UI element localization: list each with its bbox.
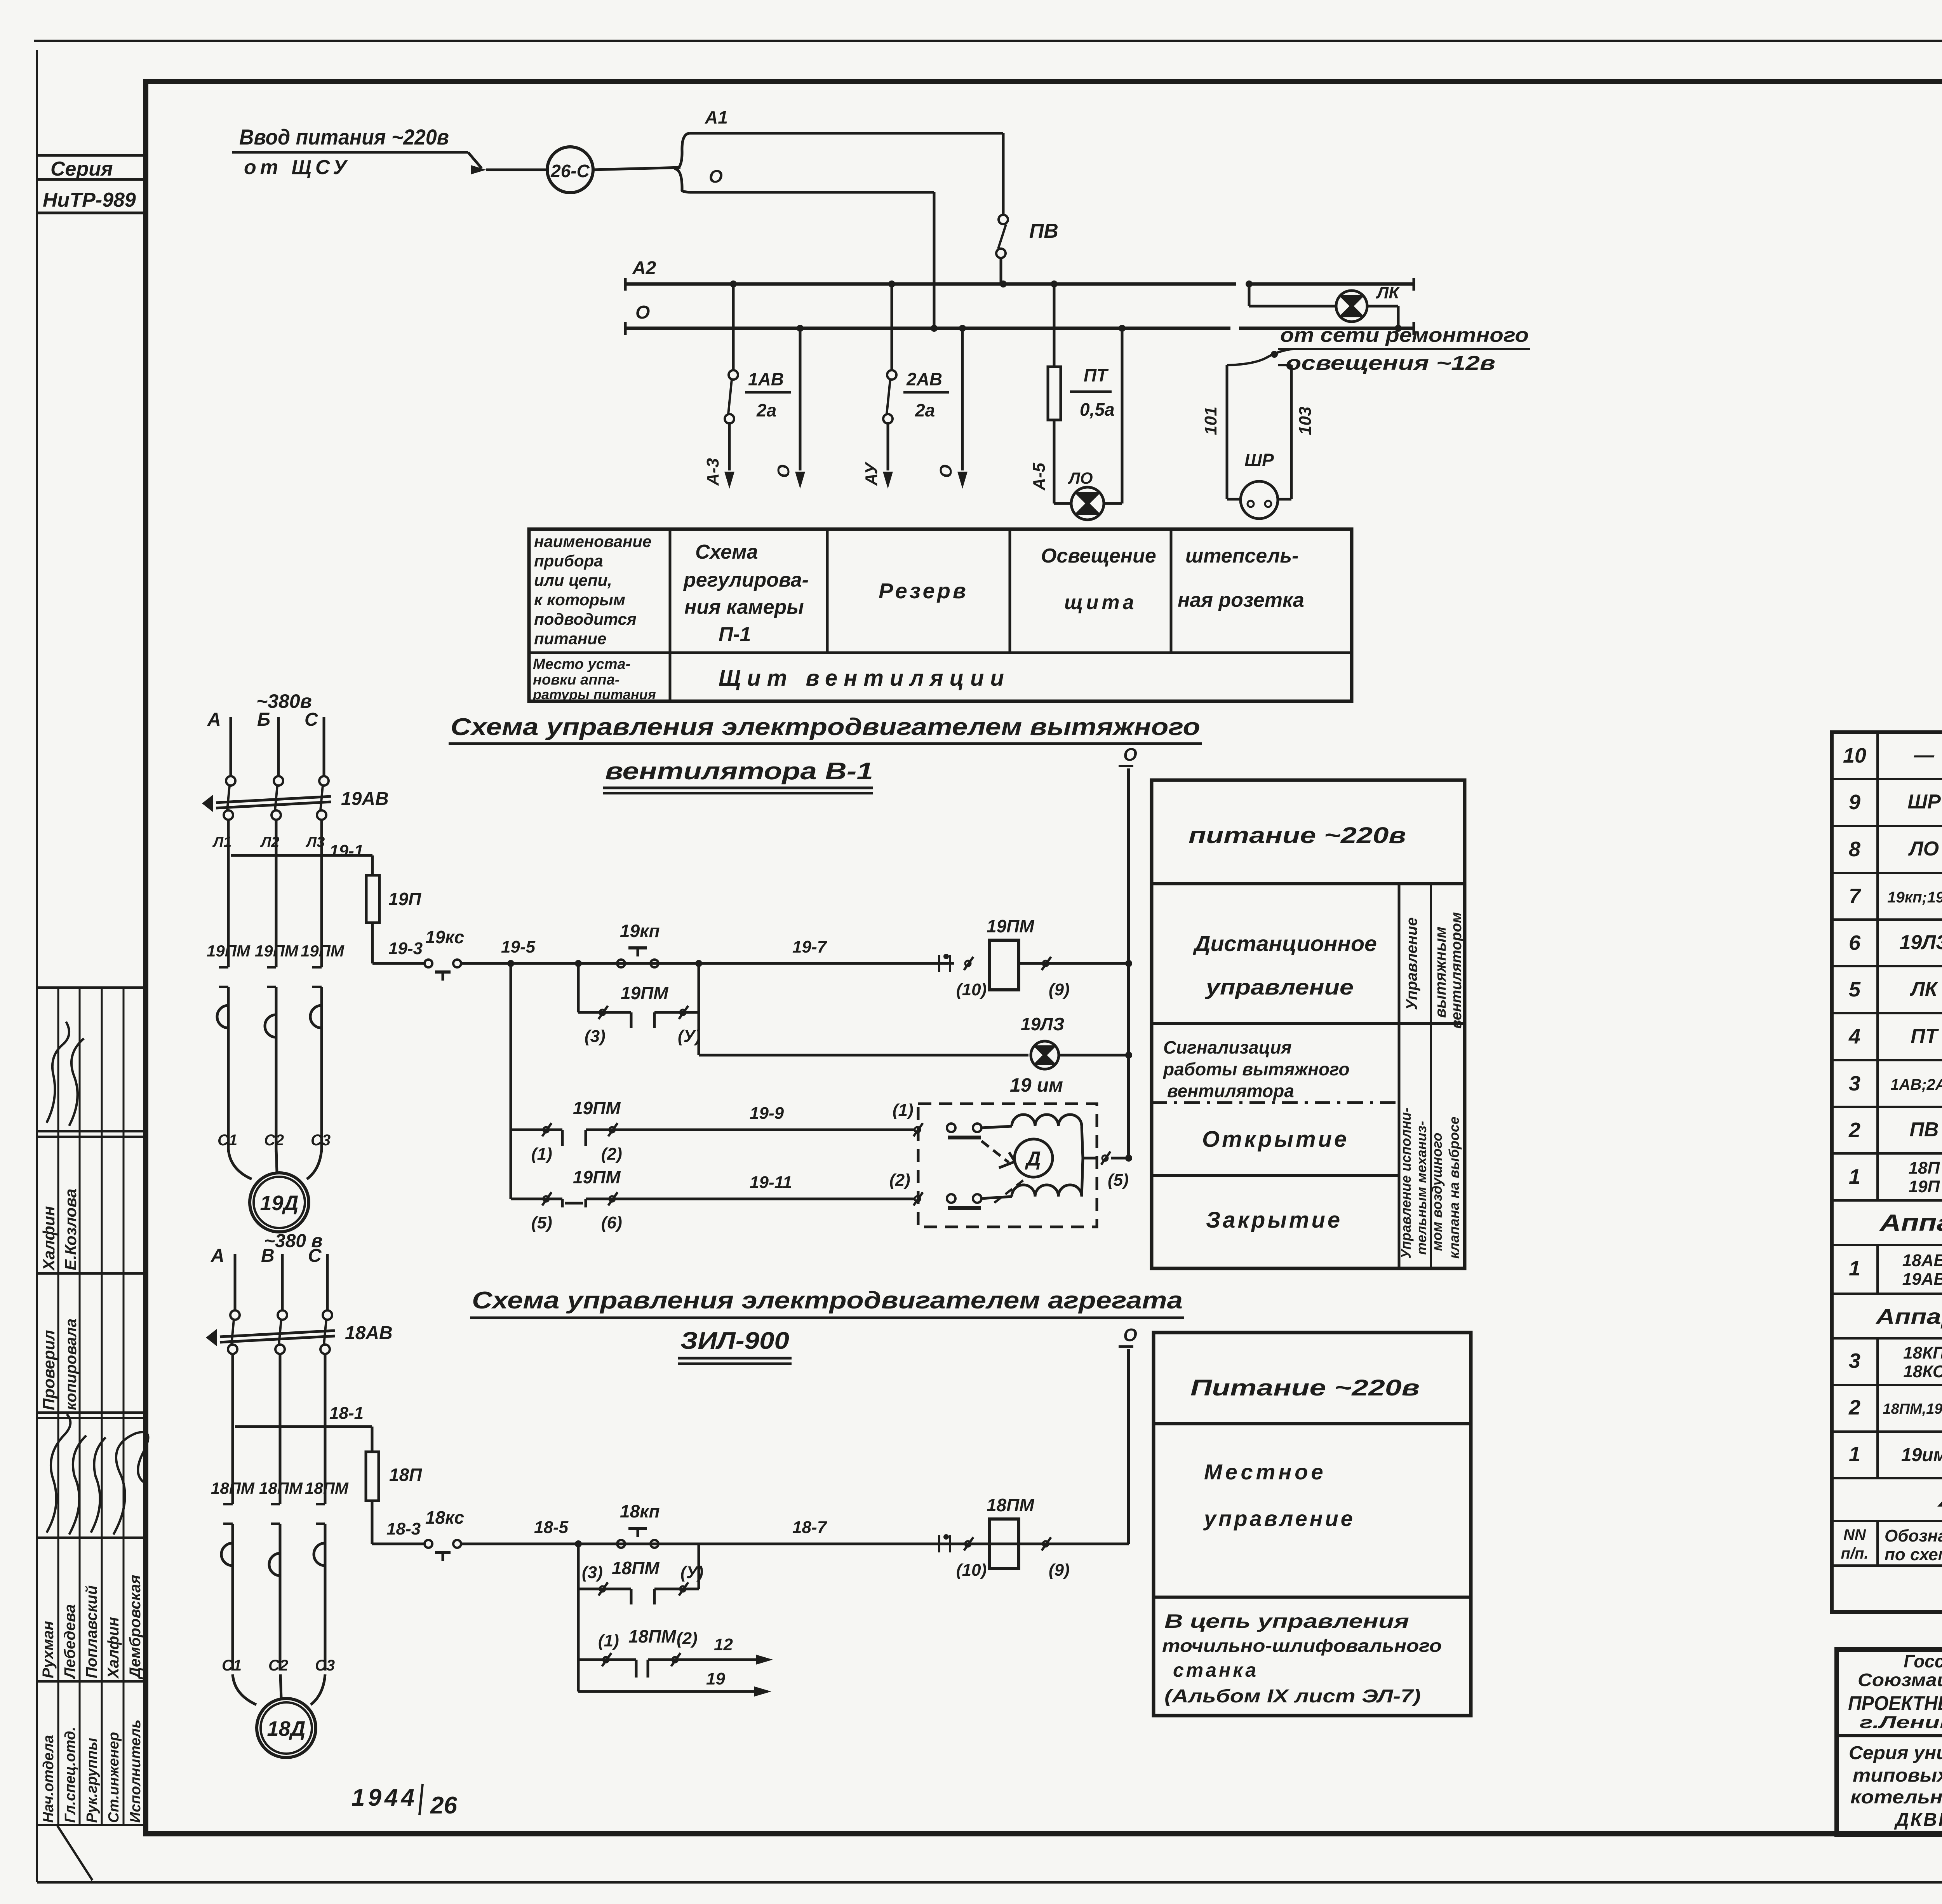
svg-text:О: О (1123, 744, 1137, 765)
svg-text:С: С (305, 709, 318, 730)
svg-text:Местное: Местное (1204, 1460, 1326, 1484)
svg-text:ная розетка: ная розетка (1178, 589, 1304, 611)
svg-text:к которым: к которым (534, 591, 625, 609)
svg-text:точильно-шлифовального: точильно-шлифовального (1162, 1636, 1442, 1656)
svg-text:(Альбом IX лист ЭЛ-7): (Альбом IX лист ЭЛ-7) (1164, 1686, 1421, 1707)
svg-text:тельным механиз-: тельным механиз- (1413, 1121, 1429, 1255)
svg-text:19П: 19П (388, 889, 421, 909)
svg-text:работы вытяжного: работы вытяжного (1162, 1059, 1350, 1079)
svg-text:Лебедева: Лебедева (61, 1604, 78, 1679)
svg-text:(1): (1) (598, 1631, 619, 1650)
svg-text:Поплавский: Поплавский (83, 1585, 100, 1678)
svg-text:(2): (2) (677, 1629, 698, 1648)
svg-text:(У): (У) (680, 1563, 703, 1582)
svg-text:А: А (211, 1246, 224, 1266)
svg-text:освещения ~12в: освещения ~12в (1286, 352, 1495, 375)
svg-text:Дембровская: Дембровская (127, 1575, 144, 1679)
svg-text:вытяжным: вытяжным (1432, 927, 1449, 1018)
svg-text:питание ~220в: питание ~220в (1189, 823, 1406, 848)
svg-text:(2): (2) (889, 1171, 910, 1190)
svg-text:вентилятора В-1: вентилятора В-1 (605, 758, 873, 785)
svg-text:Резерв: Резерв (879, 578, 968, 603)
svg-text:Исполнитель: Исполнитель (127, 1719, 144, 1823)
svg-text:Открытие: Открытие (1202, 1127, 1349, 1152)
svg-text:Рухман: Рухман (40, 1621, 57, 1678)
svg-text:19ПМ: 19ПМ (255, 942, 299, 960)
svg-text:19ПМ: 19ПМ (573, 1098, 621, 1118)
svg-text:питание: питание (534, 629, 606, 648)
svg-text:1944: 1944 (352, 1784, 418, 1811)
svg-text:С1: С1 (222, 1657, 242, 1674)
svg-text:регулирова-: регулирова- (683, 569, 809, 591)
svg-text:2: 2 (1848, 1396, 1860, 1419)
svg-text:ШР: ШР (1244, 450, 1274, 470)
svg-text:Питание ~220в: Питание ~220в (1190, 1375, 1420, 1401)
svg-text:101: 101 (1201, 407, 1220, 435)
svg-text:1: 1 (1849, 1257, 1860, 1280)
svg-text:П-1: П-1 (719, 623, 751, 646)
svg-text:19Д: 19Д (260, 1192, 298, 1215)
svg-text:19П: 19П (1909, 1177, 1940, 1196)
svg-text:В: В (261, 1246, 275, 1266)
svg-text:18ПМ: 18ПМ (259, 1479, 303, 1497)
svg-text:Б: Б (257, 709, 270, 730)
svg-text:ЛО: ЛО (1068, 469, 1093, 487)
svg-text:19ПМ: 19ПМ (987, 916, 1035, 936)
svg-text:19им: 19им (1901, 1445, 1942, 1465)
svg-text:18ПМ: 18ПМ (211, 1479, 255, 1497)
svg-text:19-11: 19-11 (750, 1173, 792, 1192)
svg-text:Союзмашстройпроект: Союзмашстройпроект (1858, 1670, 1942, 1690)
svg-text:вентилятора: вентилятора (1167, 1081, 1294, 1101)
svg-text:наименование: наименование (534, 532, 651, 550)
svg-text:12: 12 (714, 1635, 733, 1654)
svg-text:2: 2 (1848, 1118, 1860, 1142)
svg-text:(10): (10) (956, 980, 987, 999)
svg-text:19ПМ: 19ПМ (207, 942, 251, 960)
svg-text:(5): (5) (1108, 1171, 1129, 1190)
svg-text:Халфин: Халфин (105, 1617, 122, 1679)
svg-text:Управление: Управление (1403, 917, 1420, 1010)
svg-text:18-3: 18-3 (386, 1519, 421, 1538)
svg-text:Сигнализация: Сигнализация (1163, 1037, 1291, 1057)
svg-text:Освещение: Освещение (1041, 545, 1156, 567)
svg-text:С: С (308, 1246, 322, 1266)
svg-text:от сети ремонтного: от сети ремонтного (1280, 324, 1529, 347)
svg-text:Госстрой СССР: Госстрой СССР (1904, 1651, 1942, 1671)
svg-text:~380в: ~380в (256, 690, 312, 712)
svg-text:9: 9 (1849, 791, 1860, 814)
svg-text:(9): (9) (1049, 1561, 1070, 1580)
svg-text:НиТР-989: НиТР-989 (43, 189, 136, 211)
svg-text:(5): (5) (531, 1213, 552, 1232)
svg-text:1АВ;2АВ: 1АВ;2АВ (1890, 1076, 1942, 1093)
svg-text:ратуры питания: ратуры питания (532, 686, 656, 702)
svg-text:19ПМ: 19ПМ (301, 942, 345, 960)
svg-text:О: О (1123, 1325, 1137, 1345)
svg-text:18-5: 18-5 (534, 1518, 569, 1537)
svg-text:С2: С2 (264, 1132, 284, 1149)
svg-text:штепсель-: штепсель- (1185, 545, 1298, 567)
svg-text:О: О (709, 166, 723, 186)
svg-text:1: 1 (1849, 1442, 1860, 1466)
svg-text:5: 5 (1849, 978, 1861, 1001)
svg-text:(9): (9) (1049, 980, 1070, 999)
svg-text:(1): (1) (531, 1144, 552, 1164)
svg-text:18П: 18П (1909, 1158, 1940, 1178)
svg-text:19-5: 19-5 (501, 937, 536, 956)
svg-text:(10): (10) (956, 1561, 987, 1580)
svg-text:19кп;19кс: 19кп;19кс (1887, 889, 1942, 906)
svg-text:19-7: 19-7 (792, 937, 828, 956)
svg-text:О: О (635, 302, 650, 323)
svg-text:—: — (1914, 744, 1935, 766)
svg-text:18кс: 18кс (425, 1507, 464, 1528)
svg-text:1: 1 (1849, 1165, 1860, 1188)
svg-text:19-1: 19-1 (329, 841, 364, 861)
svg-text:Е.Козлова: Е.Козлова (61, 1189, 80, 1270)
svg-text:копировала: копировала (63, 1319, 80, 1410)
svg-text:Аппаратура по месту: Аппаратура по месту (1937, 1486, 1942, 1512)
svg-text:19ЛЗ: 19ЛЗ (1900, 931, 1942, 954)
svg-text:ПТ: ПТ (1911, 1025, 1939, 1047)
svg-text:(3): (3) (585, 1027, 606, 1046)
svg-text:10: 10 (1843, 744, 1866, 767)
svg-text:19: 19 (706, 1669, 725, 1688)
svg-text:18-1: 18-1 (329, 1404, 364, 1423)
svg-text:прибора: прибора (534, 552, 603, 570)
svg-text:NN: NN (1843, 1526, 1866, 1543)
svg-text:(1): (1) (893, 1101, 914, 1120)
svg-text:С3: С3 (315, 1657, 335, 1674)
svg-text:ния камеры: ния камеры (684, 596, 804, 618)
svg-text:(6): (6) (601, 1213, 622, 1232)
svg-text:управление: управление (1205, 975, 1354, 999)
svg-text:щита: щита (1064, 591, 1137, 614)
svg-text:Ст.инженер: Ст.инженер (106, 1732, 122, 1823)
svg-text:А2: А2 (632, 258, 656, 279)
svg-text:новки аппа-: новки аппа- (533, 672, 620, 688)
svg-text:103: 103 (1296, 407, 1315, 435)
svg-text:станка: станка (1173, 1659, 1258, 1681)
svg-text:2АВ: 2АВ (906, 369, 942, 389)
svg-text:Схема: Схема (695, 541, 758, 563)
svg-text:Управление исполни-: Управление исполни- (1398, 1108, 1414, 1259)
svg-text:А-5: А-5 (1030, 463, 1049, 491)
svg-text:С3: С3 (311, 1132, 331, 1149)
svg-text:(3): (3) (582, 1563, 603, 1582)
svg-text:19 им: 19 им (1010, 1074, 1063, 1096)
svg-text:ШР: ШР (1907, 791, 1941, 813)
svg-text:3: 3 (1849, 1072, 1860, 1095)
svg-text:клапана на выбросе: клапана на выбросе (1446, 1117, 1462, 1259)
svg-text:подводится: подводится (534, 610, 637, 628)
svg-text:Схема управления электродвига: Схема управления электродвигателем вытяж… (451, 714, 1200, 740)
svg-text:18П: 18П (389, 1465, 422, 1485)
svg-text:7: 7 (1849, 885, 1862, 908)
svg-text:19кп: 19кп (620, 921, 660, 941)
svg-text:26-С: 26-С (550, 161, 590, 181)
svg-text:18КП: 18КП (1903, 1343, 1942, 1362)
svg-text:А: А (207, 709, 221, 730)
svg-text:Аппаратура на щите вентиляц: Аппаратура на щите вентиляции (1879, 1210, 1942, 1236)
svg-text:или цепи,: или цепи, (534, 571, 612, 589)
svg-text:19ПМ: 19ПМ (573, 1167, 621, 1187)
svg-text:18-7: 18-7 (792, 1518, 828, 1537)
svg-text:по схеме: по схеме (1885, 1545, 1942, 1564)
svg-text:(2): (2) (601, 1144, 622, 1164)
svg-text:Гл.спец.отд.: Гл.спец.отд. (62, 1727, 78, 1823)
svg-text:2а: 2а (756, 400, 776, 420)
svg-text:18Д: 18Д (267, 1717, 305, 1740)
svg-text:3: 3 (1849, 1349, 1860, 1373)
svg-text:Серия унифицированных: Серия унифицированных (1849, 1743, 1942, 1763)
svg-text:Место уста-: Место уста- (533, 656, 630, 672)
svg-text:18КС: 18КС (1903, 1362, 1942, 1381)
svg-text:от ЩСУ: от ЩСУ (244, 156, 351, 179)
svg-text:ПВ: ПВ (1029, 220, 1058, 242)
svg-text:Нач.отдела: Нач.отдела (40, 1735, 57, 1823)
svg-text:1АВ: 1АВ (748, 369, 784, 389)
svg-text:ЛО: ЛО (1908, 838, 1939, 860)
svg-text:6: 6 (1849, 931, 1861, 955)
svg-text:Схема управления электродвига: Схема управления электродвигателем агрег… (472, 1287, 1183, 1314)
svg-text:ЗИЛ-900: ЗИЛ-900 (680, 1327, 789, 1354)
svg-text:19АВ: 19АВ (341, 789, 389, 809)
svg-text:Аппаратура на щите станции у: Аппаратура на щите станции управления шс… (1875, 1304, 1942, 1329)
svg-text:ПТ: ПТ (1084, 365, 1109, 385)
svg-text:ЛК: ЛК (1376, 283, 1400, 302)
svg-text:18ПМ: 18ПМ (987, 1495, 1035, 1515)
svg-text:18ПМ: 18ПМ (612, 1558, 660, 1578)
svg-text:А-3: А-3 (703, 458, 722, 486)
svg-text:С2: С2 (268, 1657, 288, 1674)
svg-text:19кс: 19кс (425, 927, 464, 947)
svg-text:О: О (936, 465, 955, 478)
svg-text:управление: управление (1203, 1506, 1355, 1531)
svg-text:О: О (774, 465, 793, 478)
svg-text:Рук.группы: Рук.группы (84, 1738, 100, 1823)
svg-text:(У): (У) (678, 1027, 701, 1046)
svg-text:19АВ: 19АВ (1902, 1270, 1942, 1289)
svg-text:ЛК: ЛК (1909, 978, 1939, 1000)
svg-text:19ЛЗ: 19ЛЗ (1021, 1014, 1064, 1034)
svg-text:ПВ: ПВ (1910, 1118, 1939, 1141)
svg-text:вентилятором: вентилятором (1448, 912, 1465, 1029)
svg-text:26: 26 (430, 1792, 457, 1819)
svg-text:Обознач.: Обознач. (1885, 1526, 1942, 1545)
svg-text:Серия: Серия (50, 158, 113, 180)
svg-text:Закрытие: Закрытие (1206, 1207, 1342, 1233)
svg-text:4: 4 (1848, 1025, 1860, 1048)
svg-text:п/п.: п/п. (1841, 1545, 1868, 1562)
svg-text:19-3: 19-3 (388, 939, 423, 958)
svg-text:Халфин: Халфин (40, 1206, 58, 1271)
svg-text:18АВ: 18АВ (345, 1323, 393, 1343)
svg-text:г.Ленинград 1970г.: г.Ленинград 1970г. (1860, 1713, 1942, 1732)
svg-text:18ПМ: 18ПМ (628, 1626, 677, 1646)
svg-text:19ПМ: 19ПМ (621, 983, 669, 1003)
svg-text:Щит вентиляции: Щит вентиляции (719, 665, 1010, 691)
svg-text:Д: Д (1025, 1148, 1041, 1170)
svg-text:0,5а: 0,5а (1080, 399, 1115, 420)
svg-text:Ввод питания ~220в: Ввод питания ~220в (239, 125, 449, 149)
svg-text:18ПМ: 18ПМ (305, 1479, 349, 1497)
svg-text:Дистанционное: Дистанционное (1193, 931, 1377, 956)
svg-text:Проверил: Проверил (40, 1330, 58, 1410)
svg-text:18ПМ,19ПМ: 18ПМ,19ПМ (1883, 1401, 1942, 1417)
svg-text:С1: С1 (218, 1132, 237, 1149)
svg-text:2а: 2а (915, 400, 935, 420)
svg-text:котельных с котлами: котельных с котлами (1850, 1787, 1942, 1808)
svg-text:19-9: 19-9 (750, 1104, 784, 1123)
svg-text:мом воздушного: мом воздушного (1429, 1133, 1445, 1251)
svg-text:типовых проектов: типовых проектов (1853, 1765, 1942, 1786)
svg-text:АУ: АУ (862, 462, 881, 486)
svg-text:18АВ: 18АВ (1902, 1251, 1942, 1270)
svg-text:8: 8 (1849, 838, 1860, 861)
svg-text:ДКВР.: ДКВР. (1894, 1810, 1942, 1830)
svg-text:18кп: 18кп (620, 1501, 660, 1521)
svg-text:ПРОЕКТНЫЙ ИНСТИТУТ N1: ПРОЕКТНЫЙ ИНСТИТУТ N1 (1848, 1691, 1942, 1715)
svg-text:А1: А1 (705, 107, 728, 127)
svg-text:В цепь управления: В цепь управления (1164, 1610, 1409, 1632)
